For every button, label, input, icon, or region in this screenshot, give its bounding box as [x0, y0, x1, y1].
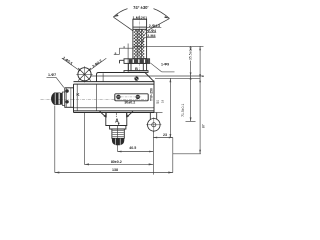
svg-text:35.5±0.1: 35.5±0.1: [188, 47, 192, 60]
svg-text:87: 87: [202, 124, 206, 128]
svg-text:19: 19: [160, 100, 164, 104]
svg-text:138: 138: [112, 168, 118, 172]
svg-text:80±0.2: 80±0.2: [111, 160, 122, 164]
svg-text:30±0.2: 30±0.2: [124, 101, 135, 105]
svg-text:40.5: 40.5: [129, 146, 136, 150]
svg-text:1-M12X1: 1-M12X1: [133, 16, 148, 20]
svg-text:TYF-250: TYF-250: [149, 88, 153, 101]
svg-text:1-Φ9: 1-Φ9: [161, 63, 169, 67]
svg-text:2-Φ4.3: 2-Φ4.3: [149, 24, 160, 28]
svg-text:2-M4: 2-M4: [147, 34, 155, 38]
svg-text:23: 23: [163, 133, 167, 137]
svg-text:2-Φ4: 2-Φ4: [148, 29, 156, 33]
svg-text:B: B: [135, 66, 138, 71]
svg-text:50: 50: [156, 100, 160, 104]
svg-text:71.5±0.1: 71.5±0.1: [181, 104, 185, 117]
svg-text:74° ±30': 74° ±30': [133, 5, 148, 10]
svg-text:1-Φ7: 1-Φ7: [48, 73, 56, 77]
